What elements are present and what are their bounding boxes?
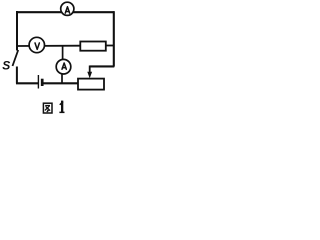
caption 1 [59, 101, 64, 114]
caption 图 glyph [43, 103, 52, 113]
battery short thick plate [41, 79, 44, 86]
wire top horizontal [16, 11, 114, 13]
wire battery to rheostat [43, 82, 78, 84]
ammeter A2 (middle) [56, 59, 71, 74]
wire left rail upper [16, 11, 18, 51]
rheostat box [78, 79, 104, 90]
wire resistor to right rail [106, 45, 114, 47]
wire wiper arrow stem [89, 66, 91, 73]
resistor R (box) [80, 42, 106, 51]
wire wiper horizontal from right rail [90, 65, 115, 67]
wire mid branch (voltmeter-resistor) [17, 45, 80, 47]
wire ammeter2 upper stem [62, 46, 64, 59]
svg-text:S: S [2, 59, 10, 73]
wire ammeter2 lower stem [61, 75, 63, 84]
wire right rail [113, 11, 115, 66]
voltmeter V [29, 37, 44, 52]
ammeter A1 (top) [61, 2, 74, 15]
switch S lever [13, 50, 19, 66]
wire left rail lower [16, 67, 18, 84]
wire bottom left to battery [16, 82, 38, 84]
battery long plate [37, 75, 39, 89]
wiper arrowhead [87, 72, 92, 79]
